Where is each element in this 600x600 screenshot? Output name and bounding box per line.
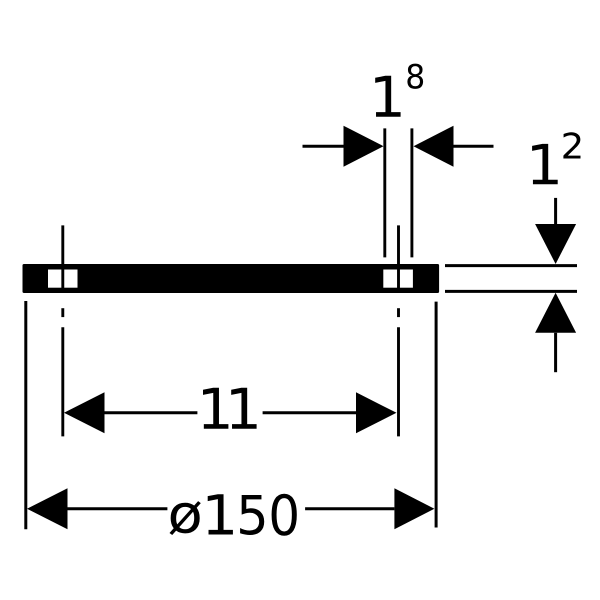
dimension 18 superscript "8" — [407, 64, 423, 89]
dimension 18 right arrow — [453, 145, 494, 148]
diameter 150 extension lines — [26, 301, 436, 529]
right hole centerline — [397, 225, 400, 436]
dimension 11 right arrow — [263, 411, 357, 414]
gasket cross-section bar — [24, 266, 438, 292]
right mounting hole — [383, 270, 413, 288]
dimension 12 superscript "2" — [563, 132, 580, 158]
dimension 18 extension lines (hole edges) — [385, 128, 412, 257]
dimension 18 left arrow — [303, 145, 349, 148]
left mounting hole — [48, 270, 78, 288]
dimension ø150 left arrow — [27, 488, 68, 529]
dimension 12 extension lines (bar top/bottom edges) — [445, 266, 577, 292]
dimension 18 label "1" — [375, 76, 400, 117]
dimension 12 up arrow — [554, 333, 557, 372]
dimension 11 left arrow — [64, 392, 105, 433]
dimension 11 label "11" — [203, 388, 228, 429]
dimension ø150 label "ø150" — [170, 501, 201, 535]
left hole centerline — [61, 225, 64, 436]
dimension 12 label "1" — [532, 144, 558, 184]
dimension 12 down arrow — [554, 198, 557, 228]
dimension ø150 right arrow — [305, 507, 394, 510]
